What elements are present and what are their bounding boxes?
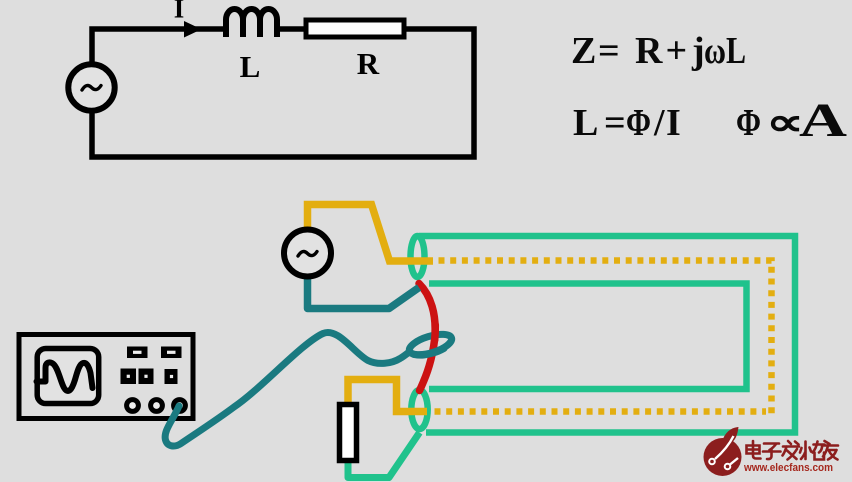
scope button row1 right (161, 347, 182, 359)
AC source V1 (68, 64, 114, 110)
wire inductor to resistor (276, 26, 305, 32)
svg-text:A: A (799, 94, 847, 147)
yellow dotted wire inside tube (439, 261, 772, 415)
AC source V2 (284, 230, 331, 277)
svg-text:I: I (666, 102, 681, 144)
scope button sq2 (139, 369, 154, 385)
resistor R1 (306, 20, 404, 37)
wire resistor to source return (92, 29, 474, 157)
yellow wire AC to tube (308, 205, 434, 262)
watermark text cn (drawn glyphs) (747, 441, 839, 460)
formula L = Phi / I (573, 102, 681, 144)
tube opening upper ellipse (411, 236, 425, 277)
yellow wire resistor to tube (348, 380, 427, 412)
svg-text:www.elecfans.com: www.elecfans.com (743, 462, 833, 474)
scope button row1 left (127, 347, 148, 359)
svg-text:L: L (240, 49, 261, 84)
shield tube inner boundary (429, 284, 747, 390)
shield tube outer boundary (419, 236, 795, 433)
wire source to inductor (92, 29, 226, 62)
svg-text:/: / (653, 102, 665, 144)
oscilloscope waveform (37, 362, 93, 391)
svg-text:I: I (174, 0, 185, 24)
oscilloscope screen (37, 349, 98, 404)
svg-text:Φ: Φ (736, 102, 761, 144)
inductor L1 (226, 9, 277, 37)
glyph fa (783, 441, 800, 460)
svg-text:ωL: ωL (704, 30, 746, 72)
red conductor through sense loop (419, 284, 435, 391)
scope button sq3 (165, 369, 178, 384)
svg-text:R: R (635, 30, 663, 72)
scope knob 1 (127, 400, 139, 412)
svg-text:j: j (691, 30, 705, 72)
glyph dian (747, 441, 761, 459)
svg-text:=: = (598, 30, 620, 72)
scope knob 2 (151, 400, 163, 412)
formula Phi prop A (736, 94, 847, 147)
scope knob 3 (174, 400, 186, 412)
glyph zi (763, 444, 781, 460)
red conductor over loop top (431, 325, 439, 340)
glyph shao (800, 442, 825, 460)
resistor R2 (340, 405, 357, 461)
scope button sq1 (121, 369, 137, 385)
watermark leaf logo (704, 427, 742, 476)
probe sense loop (407, 330, 454, 359)
svg-text:L: L (573, 102, 598, 144)
svg-text:=: = (604, 102, 626, 144)
probe loop front arc over red (414, 349, 444, 356)
teal probe cable from scope (165, 332, 408, 446)
svg-text:R: R (357, 46, 380, 81)
glyph you (823, 441, 838, 460)
svg-text:Φ: Φ (626, 102, 651, 144)
tube opening lower ellipse (411, 390, 427, 429)
formula Z = R + jwL (571, 30, 746, 72)
teal wire AC to red conductor (308, 275, 420, 309)
arrow current direction (184, 21, 202, 38)
svg-text:+: + (666, 30, 688, 72)
green wire resistor to tube (348, 433, 420, 478)
oscilloscope U1 body (19, 335, 193, 419)
svg-text:Z: Z (571, 30, 596, 72)
